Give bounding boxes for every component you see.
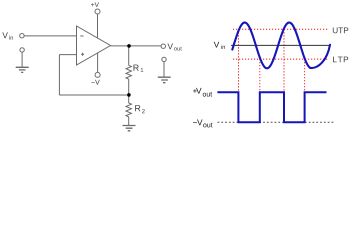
wire feedback node to R2: [128, 96, 130, 103]
label Vin schematic: [2, 32, 13, 39]
resistor R1: [126, 65, 131, 79]
terminal +V: [95, 9, 100, 14]
junction feedback node: [127, 93, 131, 97]
wire Vin to op-amp inverting input: [24, 35, 76, 37]
label -V: [91, 80, 99, 85]
threshold line UTP: [233, 28, 329, 30]
label UTP: [333, 27, 349, 33]
label R2: [135, 105, 145, 113]
wire -V supply: [97, 53, 99, 73]
terminal Vin: [20, 34, 24, 38]
label +V: [91, 2, 99, 7]
trigger vertical at rise 2: [304, 59, 306, 91]
baseline -Vout dotted: [218, 121, 335, 123]
label Vout schematic: [167, 44, 181, 51]
threshold line LTP: [233, 58, 328, 60]
label R1: [134, 65, 144, 72]
resistor R2: [126, 103, 131, 117]
wire feedback vertical: [58, 55, 60, 95]
wire feedback bottom: [59, 94, 128, 96]
trigger vertical at fall 2: [283, 29, 285, 91]
op-amp inverting input marker: [80, 35, 83, 37]
terminal -V: [95, 72, 100, 77]
wire R1 to feedback node: [128, 79, 130, 96]
wire feedback to non-inverting input: [59, 54, 76, 56]
terminal Vout: [161, 44, 165, 48]
terminal input ground: [20, 48, 24, 52]
ground R2: [123, 126, 136, 131]
wire output node to R1: [128, 46, 130, 65]
label +Vout: [193, 88, 212, 97]
junction output node: [127, 44, 131, 48]
ground input: [16, 67, 29, 72]
wire R2 to ground: [128, 117, 130, 125]
axis Vin waveform: [231, 44, 330, 46]
ground output: [158, 77, 171, 83]
terminal output ground: [162, 57, 166, 61]
trigger vertical at fall 1: [238, 29, 240, 91]
label Vin waveform: [214, 42, 225, 49]
trigger vertical at rise 1: [259, 59, 261, 91]
label -Vout: [193, 119, 213, 127]
wire output terminal to ground: [163, 62, 165, 77]
label LTP: [333, 57, 348, 63]
wire +V supply: [97, 14, 99, 38]
wire input terminal to ground: [21, 52, 23, 67]
op-amp non-inverting input marker: [81, 53, 84, 56]
op-amp U1: [77, 26, 111, 65]
wire op-amp output: [111, 45, 162, 47]
sine wave Vin: [232, 23, 330, 69]
square wave Vout: [217, 92, 326, 122]
